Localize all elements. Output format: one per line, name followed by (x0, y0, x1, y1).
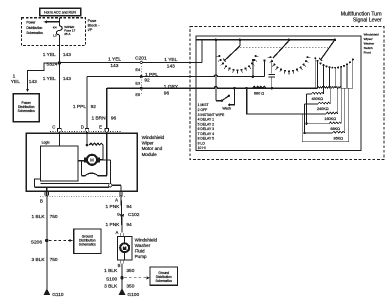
switch wiper arm 1 (239, 40, 241, 46)
fuse F17 WIPER 25A symbol (57, 26, 63, 35)
svg-text:Logic: Logic (42, 141, 50, 145)
svg-text:3 BLK: 3 BLK (32, 257, 46, 263)
capacitor in switch (271, 60, 273, 74)
wire fuse bottom lead (58, 35, 60, 46)
module ground bus (35, 186, 109, 188)
svg-text:E3: E3 (135, 80, 140, 85)
contact comb verticals (314, 58, 316, 88)
svg-text:Front: Front (364, 50, 371, 54)
module bottom connector dotted face (40, 195, 126, 197)
svg-text:L3: L3 (53, 34, 57, 38)
svg-text:680 Ω: 680 Ω (254, 92, 264, 96)
module case junction circle (109, 184, 112, 187)
svg-text:430KΩ: 430KΩ (311, 97, 323, 101)
node bus 1 (215, 39, 218, 42)
svg-text:G110: G110 (52, 292, 64, 298)
svg-text:1 GRY: 1 GRY (164, 84, 179, 90)
reference arrow S206 to ground distribution (49, 240, 70, 242)
svg-text:96: 96 (164, 91, 170, 97)
contact vertical to PPL wire 2 (wire end) (264, 61, 266, 77)
svg-text:7 DELAY 4: 7 DELAY 4 (198, 132, 215, 136)
washer pump motor M (119, 242, 130, 253)
node S100 (120, 276, 123, 279)
svg-text:Windshield: Windshield (135, 237, 158, 242)
svg-text:B: B (118, 263, 121, 268)
svg-text:94: 94 (126, 222, 132, 228)
svg-text:A: A (115, 198, 118, 203)
resistor 36K (332, 131, 344, 133)
wire 1 GRY 96 (terminal E riser) (106, 88, 108, 128)
svg-text:S206: S206 (31, 240, 43, 246)
svg-text:96: 96 (111, 115, 117, 121)
wire logic to ground bus (35, 179, 41, 187)
wash switch contact A (221, 100, 223, 102)
wire riser into switch (201, 40, 203, 63)
switch power bus (196, 39, 335, 41)
svg-text:1 PPL: 1 PPL (145, 72, 158, 78)
wire bus to terminal A (112, 184, 121, 186)
windshield washer fluid pump box (118, 237, 133, 261)
svg-text:Wash: Wash (222, 107, 231, 111)
wire 1 PPL 92 (terminal D riser) (86, 77, 88, 129)
resistor 160K (326, 112, 338, 114)
svg-text:Module: Module (142, 152, 158, 157)
wire E into module (106, 132, 108, 134)
svg-text:S324: S324 (46, 61, 58, 67)
svg-text:1 YEL: 1 YEL (164, 57, 177, 63)
svg-text:3 BLK: 3 BLK (104, 284, 118, 290)
svg-text:E4: E4 (135, 67, 141, 72)
module top connector dotted face (50, 130, 122, 132)
fuse block I/P dashed box (22, 18, 86, 46)
svg-text:3 INSTANT WIPE: 3 INSTANT WIPE (198, 113, 225, 117)
wire bus to terminal B (46, 187, 48, 196)
multifunction turn signal lever dashed box (190, 27, 384, 160)
svg-text:E: E (99, 125, 102, 130)
svg-text:1 MIST: 1 MIST (198, 103, 209, 107)
svg-text:M: M (123, 245, 126, 250)
delay contact resistor chain (318, 87, 324, 89)
switch mechanical dashed link (240, 47, 328, 49)
terminal C (58, 129, 62, 132)
svg-text:5 DELAY 2: 5 DELAY 2 (198, 122, 215, 126)
svg-text:Switch: Switch (364, 46, 373, 50)
svg-text:Signal Lever: Signal Lever (353, 18, 382, 24)
svg-text:G100: G100 (127, 292, 139, 298)
svg-text:350: 350 (126, 268, 134, 274)
wire fuse to S324 (58, 45, 60, 63)
terminal D (85, 129, 89, 132)
contact vertical to PPL wire 1 (252, 60, 254, 77)
ground G100 (119, 288, 126, 295)
switch wiper arm 3 (321, 40, 335, 60)
terminal E (105, 129, 109, 132)
terminal B (45, 192, 49, 195)
connector C201 wire breaks (140, 61, 142, 63)
node wash on GRY wire (233, 87, 236, 90)
svg-text:143: 143 (63, 76, 71, 82)
svg-text:Schematics: Schematics (79, 243, 96, 247)
node S206 (45, 239, 48, 242)
svg-text:36KΩ: 36KΩ (333, 136, 343, 140)
windshield wiper motor and module box (26, 133, 137, 191)
svg-text:143: 143 (110, 63, 118, 69)
svg-text:S100: S100 (106, 276, 118, 282)
wire C into logic (58, 132, 60, 134)
svg-text:1 YEL: 1 YEL (108, 57, 121, 63)
module inner bus upper (41, 182, 109, 184)
label: Hot in ACC and RUN box (40, 8, 81, 15)
switch wiper arm 2 (273, 40, 290, 58)
wire S324 to terminal C (58, 63, 60, 129)
connector C201 dashed line (140, 60, 142, 94)
svg-text:Fluid: Fluid (135, 249, 145, 254)
svg-text:1 YEL: 1 YEL (43, 52, 56, 58)
module resistor (89, 143, 103, 145)
resistor 680 ohm (253, 86, 267, 88)
wire 1 BLK 750 (46, 196, 48, 240)
svg-text:E5: E5 (135, 92, 140, 97)
arrow to power distribution schematics (46, 21, 59, 23)
svg-text:C201: C201 (135, 56, 147, 62)
svg-text:143: 143 (29, 79, 37, 85)
svg-text:1 BLK: 1 BLK (104, 268, 118, 274)
wire 1 PNK 94 (upper) (120, 196, 123, 212)
svg-text:750: 750 (50, 214, 58, 220)
terminal A (119, 192, 123, 195)
resistor 240K (318, 102, 330, 104)
wash switch arm (222, 96, 228, 100)
wire wash feed vertical (215, 40, 217, 101)
svg-text:Windshield: Windshield (364, 33, 379, 37)
svg-text:92: 92 (91, 104, 97, 110)
svg-text:Hot in ACC and RUN: Hot in ACC and RUN (44, 11, 76, 15)
wire D into module (86, 132, 88, 134)
svg-text:1 PNK: 1 PNK (106, 204, 121, 210)
wire 3 BLK 750 (46, 241, 48, 290)
svg-text:Washer: Washer (364, 42, 375, 46)
svg-text:2 OFF: 2 OFF (198, 108, 208, 112)
svg-text:92: 92 (144, 78, 150, 84)
svg-text:Multifunction Turn: Multifunction Turn (341, 11, 382, 17)
svg-text:Schematics: Schematics (18, 109, 35, 113)
svg-text:YEL: YEL (11, 79, 20, 85)
resistor 68K (329, 122, 341, 124)
wire 1 BLK 350 (121, 263, 123, 277)
windshield wiper washer switch inner box (196, 36, 361, 151)
washer pump terminal A (120, 233, 124, 236)
wire S324 branch to power distribution (28, 63, 60, 89)
power distribution schematics box (13, 94, 39, 122)
svg-text:Wiper: Wiper (142, 141, 154, 146)
svg-text:6 DELAY 3: 6 DELAY 3 (198, 127, 215, 131)
svg-text:Distribution: Distribution (26, 26, 42, 30)
wire delay tap branch (247, 88, 326, 114)
svg-text:143: 143 (167, 64, 175, 70)
svg-text:Windshield: Windshield (142, 135, 165, 140)
svg-text:1 YEL: 1 YEL (43, 76, 56, 82)
svg-text:1 PNK: 1 PNK (106, 222, 121, 228)
wash switch contact B and wire to delay wire (228, 104, 230, 106)
svg-text:160KΩ: 160KΩ (324, 117, 336, 121)
svg-text:Schematics: Schematics (155, 279, 172, 283)
svg-text:Schematics: Schematics (26, 31, 43, 35)
svg-text:1 BRN: 1 BRN (91, 115, 106, 121)
ground G110 (43, 288, 50, 295)
svg-text:A: A (116, 230, 119, 235)
wire logic to motor left brush (78, 160, 85, 162)
motor left brush lead (81, 160, 83, 176)
resistor 430K (312, 92, 324, 94)
ground distribution schematics box 2 (150, 267, 177, 285)
wire 3 BLK 350 (121, 277, 123, 289)
node S324 (58, 61, 61, 64)
svg-text:I/P: I/P (88, 27, 93, 32)
svg-text:143: 143 (63, 52, 71, 58)
wire fuse top lead (58, 18, 60, 26)
svg-text:Motor and: Motor and (142, 146, 163, 151)
svg-text:Pump: Pump (135, 254, 147, 259)
wire 1 PNK 94 (lower) (121, 212, 123, 233)
svg-text:350: 350 (126, 284, 134, 290)
svg-text:10 HI: 10 HI (198, 146, 206, 150)
connector C102 (120, 214, 123, 216)
reference arrow S100 to ground distribution (124, 277, 147, 279)
node bus 2 (239, 39, 242, 42)
svg-text:Power: Power (26, 21, 36, 25)
ladder bottom bus (302, 141, 349, 143)
svg-text:240KΩ: 240KΩ (317, 107, 329, 111)
switch contact arc 1 (218, 55, 220, 57)
svg-text:750: 750 (50, 257, 58, 263)
switch contact arc 2 (270, 56, 272, 58)
svg-text:K4: K4 (53, 26, 57, 30)
node bus 3 (288, 39, 291, 42)
node bus 4 (334, 39, 337, 42)
svg-text:M: M (90, 158, 94, 163)
svg-text:25 A: 25 A (64, 32, 71, 36)
svg-text:94: 94 (126, 204, 132, 210)
park switch cam (82, 173, 107, 176)
washer pump terminal B (120, 260, 124, 263)
wire 1 GRY 96 horizontal (107, 87, 318, 89)
svg-text:G: G (117, 212, 120, 217)
wiper motor M (86, 154, 98, 166)
wire 1 PPL 92 horizontal (87, 75, 265, 77)
ground distribution schematics box 1 (74, 229, 101, 254)
svg-text:4 DELAY 1: 4 DELAY 1 (198, 118, 215, 122)
logic box (41, 146, 79, 181)
svg-text:C102: C102 (128, 212, 140, 218)
svg-text:Washer: Washer (135, 243, 151, 248)
svg-text:9 LO: 9 LO (198, 141, 206, 145)
svg-text:1 PPL: 1 PPL (73, 104, 86, 110)
svg-text:B: B (40, 199, 43, 204)
svg-text:D: D (81, 125, 84, 130)
svg-text:C: C (52, 125, 55, 130)
switch contact arc 3 (314, 57, 316, 59)
svg-text:1 BLK: 1 BLK (32, 214, 46, 220)
wire 1 YEL 143 from S324 to switch (horizontal) (59, 61, 202, 63)
svg-text:8 DELAY 5: 8 DELAY 5 (198, 137, 215, 141)
wire motor right brush to case (100, 159, 111, 161)
svg-text:1: 1 (13, 74, 16, 80)
svg-text:Wiper/: Wiper/ (364, 37, 373, 41)
svg-text:68KΩ: 68KΩ (330, 127, 340, 131)
